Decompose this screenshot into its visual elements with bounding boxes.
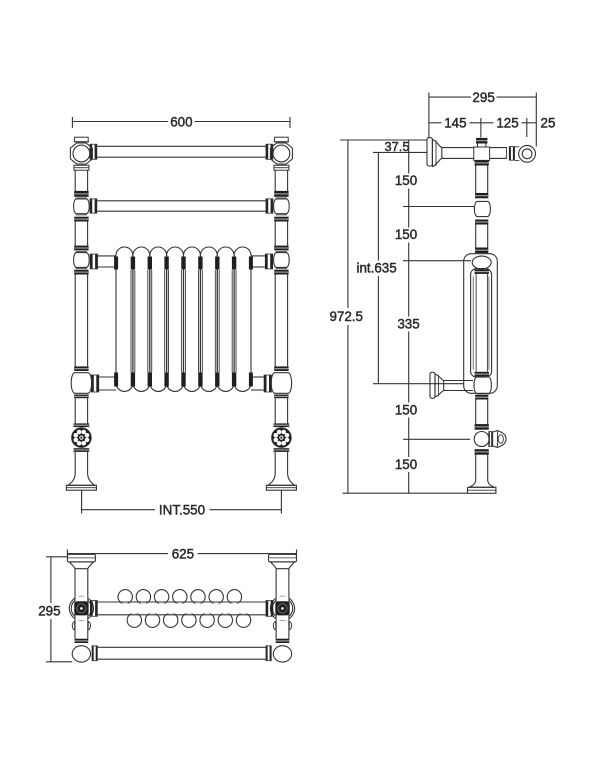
dim 972.5 line	[347, 140, 349, 308]
valve handwheel	[72, 428, 92, 448]
front post at x=281	[275, 137, 289, 142]
plan bottom ball	[273, 646, 291, 662]
section boundary lines	[214, 270, 216, 373]
bottom arm tube	[444, 380, 473, 382]
plan manifold bar	[98, 603, 266, 613]
tick 150 level2 int635 top	[403, 260, 471, 262]
295 top tick	[46, 556, 67, 558]
radiator end junction left bottom	[114, 373, 118, 387]
towel bar end circle	[519, 145, 536, 162]
dim INT.550 extension left	[81, 491, 83, 514]
svg-text:335: 335	[397, 317, 419, 332]
svg-text:625: 625	[172, 546, 194, 561]
295 extension left	[428, 93, 430, 138]
chain dim line	[408, 140, 410, 174]
radiator section 6	[200, 247, 217, 391]
radiator side inner	[471, 269, 492, 378]
radiator bottom arm left	[98, 376, 116, 378]
section junction	[164, 257, 168, 270]
bar connector	[509, 147, 511, 161]
svg-text:37.5: 37.5	[385, 139, 410, 154]
tick 150 level1	[403, 206, 475, 208]
post through radiator	[475, 274, 477, 372]
side post bottom	[475, 455, 477, 481]
radiator side ball top	[472, 256, 491, 269]
dim int.635 line	[377, 152, 379, 260]
dim 600 extension right	[289, 117, 291, 128]
plan bottom ball	[72, 646, 90, 662]
svg-text:150: 150	[395, 173, 417, 188]
dim line 625	[67, 553, 168, 555]
plan arm (to wall)	[74, 569, 76, 597]
radiator section 4	[167, 247, 184, 391]
section boundary lines	[130, 270, 132, 373]
plan hub	[69, 596, 93, 620]
plan radiator circles bottom row	[127, 613, 141, 627]
svg-text:150: 150	[395, 227, 417, 242]
cross fitting body	[474, 147, 490, 160]
front post at x=81	[75, 137, 89, 142]
295/25 extension right	[535, 93, 537, 147]
dim line 600	[72, 121, 168, 123]
svg-text:295: 295	[38, 603, 60, 618]
295 bottom tick	[46, 661, 72, 663]
radiator end junction right top	[249, 257, 253, 270]
wall bracket top	[427, 138, 432, 166]
top reference line	[340, 139, 427, 141]
svg-text:972.5: 972.5	[329, 309, 363, 324]
plan bracket flare	[271, 562, 295, 569]
second towel rail	[97, 200, 265, 202]
svg-text:600: 600	[170, 114, 192, 129]
tick int635 bottom	[373, 383, 464, 385]
cross fitting lower bands	[475, 160, 489, 165]
radiator top arm right	[251, 255, 265, 257]
radiator bottom arm right	[251, 376, 264, 378]
radiator end junction right bottom	[249, 373, 253, 387]
dim INT.550 extension right	[280, 491, 282, 514]
tick at 145/125	[480, 118, 482, 138]
svg-text:INT.550: INT.550	[159, 502, 205, 517]
side post lower	[475, 400, 477, 425]
plan arm (to wall)	[275, 569, 277, 597]
cross fitting cap	[476, 138, 487, 144]
side foot	[469, 481, 494, 487]
top towel rail	[97, 145, 265, 147]
section boundary lines	[198, 270, 200, 373]
plan radiator circles top row	[118, 590, 132, 604]
valve handwheel	[272, 428, 292, 448]
plan hub	[270, 596, 294, 620]
svg-text:125: 125	[496, 116, 518, 131]
radiator side outer	[464, 254, 498, 394]
section boundary lines	[164, 270, 166, 373]
side valve body	[474, 432, 489, 447]
dim line INT.550	[82, 509, 155, 511]
front foot	[268, 475, 294, 486]
top arm tube	[442, 147, 474, 149]
section junction	[215, 257, 219, 270]
plan bracket flare	[69, 562, 93, 569]
section junction	[148, 257, 152, 270]
svg-text:25: 25	[541, 116, 556, 131]
radiator section 3	[150, 247, 167, 391]
inner column lines	[472, 277, 474, 370]
section junction	[181, 257, 185, 270]
plan wings	[72, 622, 75, 630]
radiator section 1	[116, 247, 133, 391]
tick at 125/25	[526, 118, 528, 137]
section junction	[232, 257, 236, 270]
front foot	[68, 475, 94, 486]
dim line 145-125-25	[429, 122, 442, 124]
radiator end junction left top	[114, 257, 118, 270]
section boundary lines	[231, 270, 233, 373]
radiator section 8	[234, 247, 251, 391]
section junction	[131, 257, 135, 270]
radiator section 5	[184, 247, 201, 391]
plan wall plate at x=81	[67, 554, 95, 562]
svg-text:int.635: int.635	[356, 261, 396, 276]
section boundary lines	[181, 270, 183, 373]
svg-text:150: 150	[395, 403, 417, 418]
plan wings	[273, 622, 276, 630]
side ball joint bottom	[474, 377, 491, 394]
plan post below hub	[74, 621, 76, 639]
plan wall plate at x=282	[269, 554, 297, 562]
plan towel bar	[98, 646, 266, 648]
radiator section 2	[133, 247, 150, 391]
bottom reference line	[343, 492, 468, 494]
section boundary lines	[147, 270, 149, 373]
radiator section 7	[217, 247, 234, 391]
section junction	[198, 257, 202, 270]
radiator top arm left	[98, 255, 116, 257]
tick 37.5 level	[373, 151, 427, 153]
side valve handle	[488, 432, 489, 447]
svg-text:145: 145	[444, 116, 466, 131]
plan post below hub	[275, 621, 277, 639]
dim 295 line	[50, 557, 52, 603]
dim 600 extension left	[71, 117, 73, 128]
svg-text:295: 295	[472, 90, 494, 105]
svg-text:150: 150	[395, 457, 417, 472]
dim line 295	[429, 96, 471, 98]
side post upper	[475, 166, 477, 194]
tick below valve	[403, 438, 470, 440]
side ball joint upper	[474, 201, 490, 216]
wall bracket bottom	[430, 372, 435, 398]
